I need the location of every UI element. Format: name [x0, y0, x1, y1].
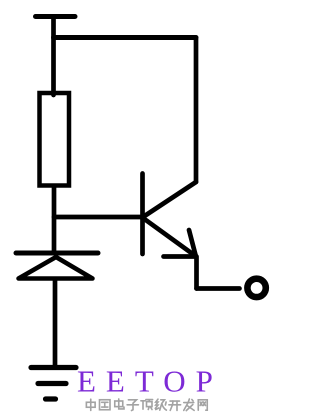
- svg-text:EETOP: EETOP: [77, 364, 223, 399]
